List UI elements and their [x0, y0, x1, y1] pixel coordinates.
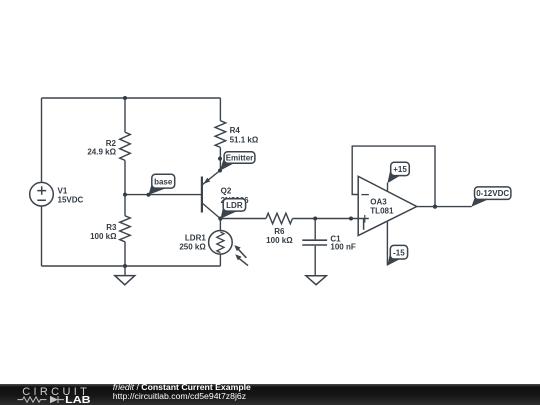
- junction dot emitter: [218, 169, 222, 173]
- junction dot op-amp + pin: [349, 217, 353, 221]
- transistor Q2 PNP: [202, 171, 221, 219]
- svg-text:LDR: LDR: [226, 201, 243, 210]
- resistor R2: [120, 132, 131, 160]
- resistor R3: [120, 216, 131, 242]
- voltage source V1: [30, 182, 54, 206]
- ground (left): [115, 266, 135, 285]
- svg-text:100 kΩ: 100 kΩ: [90, 232, 117, 241]
- wire R2 top stub: [124, 98, 126, 132]
- junction dot top net: [123, 96, 127, 100]
- flag 0-12VDC: [471, 187, 511, 207]
- svg-text:V1: V1: [58, 187, 68, 196]
- svg-text:TL081: TL081: [370, 206, 394, 215]
- capacitor C1: [302, 219, 327, 276]
- label LDR1 250 kohm: [179, 234, 206, 252]
- svg-text:0-12VDC: 0-12VDC: [476, 189, 509, 198]
- junction dot C1 tap: [313, 217, 317, 221]
- wire stub below plus input: [363, 219, 365, 230]
- label R2 24.9 kohm: [87, 139, 116, 156]
- op-amp minus input mark: [361, 194, 368, 196]
- label V1 15VDC: [58, 187, 84, 205]
- wire feedback loop: [352, 146, 435, 207]
- svg-text:base: base: [154, 177, 173, 186]
- label C1 100 nF: [330, 234, 355, 251]
- flag -15: [387, 245, 407, 265]
- wire left branch V1 bottom: [41, 206, 43, 266]
- wire R2 bottom to base node: [124, 160, 126, 215]
- svg-text:+15: +15: [393, 165, 407, 174]
- flag +15: [387, 162, 409, 183]
- svg-text:R6: R6: [274, 227, 285, 236]
- wire bottom ground net: [42, 265, 221, 267]
- svg-text:-15: -15: [393, 248, 405, 257]
- wire R3 bottom stub: [124, 242, 126, 266]
- junction dot base net: [123, 193, 127, 197]
- logo resistor squiggle and diode: [18, 396, 65, 403]
- wire R4 bottom to emitter: [219, 147, 221, 170]
- flag Emitter: [220, 152, 255, 171]
- svg-text:15VDC: 15VDC: [58, 196, 84, 205]
- wire base net: [125, 194, 202, 196]
- wire top net V1+ to R2/R4: [42, 97, 221, 99]
- junction dot bottom net: [123, 264, 127, 268]
- label R6 100 kohm: [266, 227, 293, 245]
- wire R4 top stub: [219, 98, 221, 121]
- svg-text:Emitter: Emitter: [226, 154, 254, 163]
- svg-text:LDR1: LDR1: [185, 234, 206, 243]
- svg-text:Q2: Q2: [221, 186, 232, 195]
- label R3 100 kohm: [90, 223, 117, 241]
- svg-text:250 kΩ: 250 kΩ: [179, 243, 206, 252]
- resistor R4: [215, 121, 226, 148]
- junction dot emitter flag attach: [218, 157, 222, 161]
- svg-text:24.9 kΩ: 24.9 kΩ: [87, 148, 116, 157]
- junction dot output/feedback: [433, 205, 437, 209]
- svg-text:100 kΩ: 100 kΩ: [266, 236, 293, 245]
- wire collector node to R6: [220, 218, 266, 220]
- svg-text:100 nF: 100 nF: [330, 243, 355, 252]
- wire V+ pin: [387, 183, 389, 192]
- op-amp plus input mark: [364, 215, 366, 223]
- svg-text:LAB: LAB: [65, 395, 90, 405]
- wire collector to LDR1: [219, 219, 221, 231]
- wire R6 to op-amp + input: [293, 218, 369, 220]
- junction dot collector node: [218, 217, 222, 221]
- ground (under C1): [306, 276, 326, 285]
- wire V- pin: [386, 222, 388, 266]
- wire left branch V1 top: [41, 98, 43, 182]
- svg-text:http://circuitlab.com/cd5e94t7: http://circuitlab.com/cd5e94t7z8j6z: [113, 391, 246, 401]
- label OA3 TL081: [370, 198, 394, 216]
- svg-text:OA3: OA3: [370, 198, 387, 207]
- op-amp OA3 triangle: [358, 176, 417, 235]
- footer bar: [0, 384, 540, 405]
- junction dot base flag attach: [147, 193, 151, 197]
- wire LDR1 bottom: [219, 254, 221, 266]
- svg-text:R3: R3: [106, 223, 117, 232]
- wire output net: [417, 206, 472, 208]
- label R4 51.1 kohm: [230, 126, 259, 144]
- svg-text:R4: R4: [230, 126, 241, 135]
- resistor R6: [266, 213, 293, 224]
- photoresistor LDR1: [209, 231, 248, 266]
- svg-text:51.1 kΩ: 51.1 kΩ: [230, 135, 259, 144]
- flag LDR: [221, 199, 246, 219]
- flag base: [149, 174, 175, 195]
